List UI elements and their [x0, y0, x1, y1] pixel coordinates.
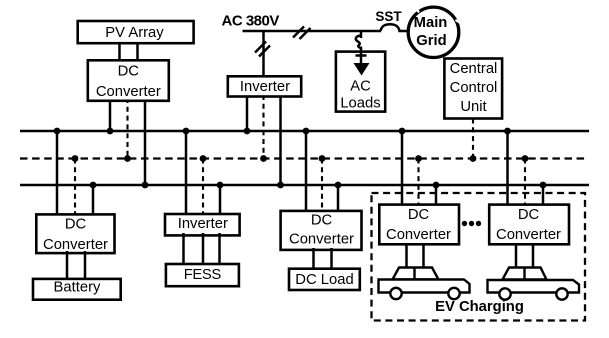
wire: AC feeder to inverter — [262, 31, 265, 77]
wire: battery converter to battery (left) — [66, 251, 69, 281]
node: junction EV converter 2 / middle bus — [522, 155, 529, 162]
svg-text:SST: SST — [375, 9, 402, 24]
wire: battery converter to battery (right) — [84, 251, 87, 281]
svg-text:Converter: Converter — [386, 227, 451, 243]
wire: FESS inverter to bottom bus — [219, 185, 222, 216]
node: junction battery converter / top bus — [54, 128, 61, 135]
symbol: three-phase slash marks on inverter feed — [255, 42, 270, 57]
wire: battery converter to bottom bus — [92, 185, 95, 216]
symbol: SST hump in AC feeder — [381, 24, 410, 31]
symbol: three-phase slash marks on AC feeder — [293, 27, 311, 40]
wire: FESS inverter to FESS (right) — [218, 233, 221, 266]
bus: middle control bus (dashed) — [20, 157, 588, 159]
node: junction DC load converter / top bus — [303, 128, 310, 135]
svg-text:AC 380V: AC 380V — [222, 13, 280, 30]
component: Central Control Unit — [444, 59, 502, 119]
wire: PV converter to bottom bus — [144, 98, 147, 185]
svg-text:DC: DC — [408, 207, 430, 223]
wire: PV array to PV converter (left) — [118, 44, 121, 62]
svg-text:Loads: Loads — [340, 95, 380, 111]
wire: FESS inverter to middle bus (dashed control) — [202, 159, 204, 217]
component: DC Converter (EV 2) — [489, 205, 569, 245]
node: junction battery converter / bottom bus — [90, 182, 97, 189]
wire: DC load converter to DC load (left) — [312, 248, 315, 271]
component: FESS — [166, 264, 239, 286]
symbol: EV car 1 — [379, 268, 470, 300]
wire: AC 380V feeder line — [243, 30, 382, 33]
wire: EV converter 1 to middle bus (dashed control) — [417, 159, 419, 208]
component: DC Converter (PV) — [88, 60, 169, 101]
svg-text:AC: AC — [350, 78, 371, 94]
boundary: EV charging station (dashed) — [372, 193, 586, 321]
svg-text:FESS: FESS — [184, 267, 222, 283]
component: DC Converter (EV 1) — [379, 205, 459, 245]
wire: EV 2 charging lead (right) — [532, 243, 535, 268]
svg-text:Unit: Unit — [460, 99, 486, 115]
node: junction DC load converter / bottom bus — [335, 182, 342, 189]
svg-text:Inverter: Inverter — [178, 216, 228, 232]
wire: AC inverter to top bus — [246, 95, 249, 131]
wire: PV array to PV converter (right) — [136, 44, 139, 62]
component: Main Grid — [408, 7, 460, 57]
node: junction DC load converter / middle bus — [319, 155, 326, 162]
wire: EV 2 charging lead (left) — [515, 243, 518, 268]
svg-text:Control: Control — [450, 80, 498, 96]
svg-text:Main: Main — [414, 15, 448, 31]
node: junction FESS inverter / middle bus — [200, 155, 207, 162]
wire: AC inverter to middle bus (dashed control) — [262, 95, 264, 159]
node: junction PV converter / bottom bus — [142, 182, 149, 189]
wire: EV 1 charging lead (right) — [422, 243, 425, 268]
wire: DC load converter to DC load (right) — [330, 248, 333, 271]
wire: AC inverter to bottom bus — [279, 95, 282, 185]
wire: EV 1 charging lead (left) — [405, 243, 408, 268]
symbol: breaker curl on AC loads drop — [356, 36, 361, 52]
component: Battery — [33, 279, 121, 300]
wire: AC feeder drop to AC loads — [360, 31, 363, 38]
wire: EV converter 2 to middle bus (dashed control) — [524, 159, 526, 208]
node: junction AC inverter / bottom bus — [277, 182, 284, 189]
wire: PV converter to top bus — [109, 98, 112, 131]
node: junction PV converter / top bus — [107, 128, 114, 135]
wire: CCU to middle bus (dashed control) — [472, 119, 474, 159]
wire: FESS inverter to FESS (middle) — [202, 233, 205, 266]
node: junction FESS inverter / top bus — [183, 128, 190, 135]
wire: DC load converter to bottom bus — [337, 185, 340, 213]
node: junction CCU / middle bus — [470, 155, 477, 162]
component: DC Load — [289, 269, 360, 290]
bus: top DC bus (solid) — [20, 130, 589, 133]
node: junction FESS inverter / bottom bus — [217, 182, 224, 189]
svg-text:Converter: Converter — [496, 227, 561, 243]
node: junction PV converter / middle bus — [124, 155, 131, 162]
wire: EV converter 2 to top bus — [506, 131, 509, 207]
svg-text:DC Load: DC Load — [295, 272, 353, 288]
svg-text:Converter: Converter — [96, 84, 161, 100]
wire: PV converter to middle bus (dashed control) — [126, 98, 128, 159]
node: junction AC inverter / top bus — [244, 128, 251, 135]
wire: FESS inverter to FESS (left) — [182, 233, 185, 266]
node: junction EV converter 1 / middle bus — [415, 155, 422, 162]
svg-text:Converter: Converter — [289, 231, 354, 247]
component: Inverter (FESS) — [165, 214, 240, 235]
svg-text:DC: DC — [311, 212, 333, 228]
node: junction EV converter 1 / bottom bus — [433, 182, 440, 189]
wire: FESS inverter to top bus — [185, 131, 188, 216]
svg-text:DC: DC — [65, 217, 87, 233]
node: junction AC inverter / middle bus — [260, 155, 267, 162]
component: DC Converter (battery) — [36, 214, 114, 253]
component: AC Loads — [336, 52, 385, 112]
bus: bottom DC bus (solid) — [20, 184, 589, 187]
wire: battery converter to top bus — [56, 131, 59, 216]
symbol: EV car 2 — [488, 268, 580, 300]
wire: DC load converter to middle bus (dashed control) — [321, 159, 323, 214]
svg-text:Converter: Converter — [43, 237, 108, 253]
wire: battery converter to middle bus (dashed control) — [74, 159, 76, 217]
node: junction battery converter / middle bus — [72, 155, 79, 162]
svg-text:Battery: Battery — [54, 280, 101, 296]
svg-text:EV Charging: EV Charging — [435, 299, 524, 315]
svg-text:Inverter: Inverter — [240, 79, 290, 95]
svg-text:PV Array: PV Array — [105, 25, 164, 41]
node: junction EV converter 1 / top bus — [399, 128, 406, 135]
wire: EV converter 1 to bottom bus — [435, 185, 438, 207]
svg-text:DC: DC — [118, 64, 140, 80]
symbol: ellipsis between EV converters — [462, 221, 481, 226]
svg-text:Central: Central — [450, 61, 498, 77]
wire: EV converter 1 to top bus — [401, 131, 404, 207]
node: junction EV converter 2 / bottom bus — [540, 182, 547, 189]
component: Inverter (AC side) — [228, 76, 301, 96]
svg-text:Grid: Grid — [416, 33, 446, 49]
component: PV Array — [78, 21, 194, 43]
wire: EV converter 2 to bottom bus — [542, 185, 545, 207]
svg-text:DC: DC — [518, 207, 540, 223]
wire: DC load converter to top bus — [305, 131, 308, 213]
component: DC Converter (DC load) — [281, 211, 362, 250]
node: junction EV converter 2 / top bus — [504, 128, 511, 135]
